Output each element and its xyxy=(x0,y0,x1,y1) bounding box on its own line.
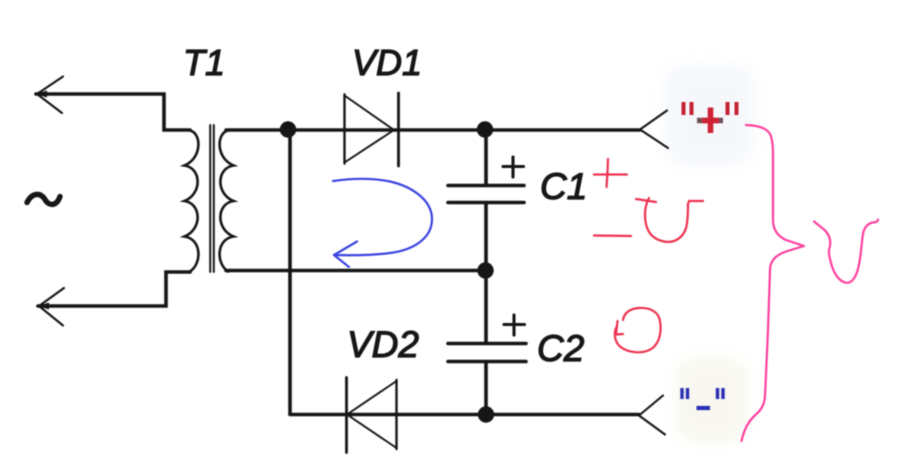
wire: bottom rail xyxy=(290,413,639,417)
input terminal arrow (top) xyxy=(37,77,63,114)
wire: top input lead xyxy=(36,94,190,130)
annotation: red minus polarity mark near C1 xyxy=(594,234,631,237)
svg-text:C1: C1 xyxy=(540,166,587,207)
svg-text:C2: C2 xyxy=(537,328,585,369)
haze behind "-" output annotation xyxy=(676,358,748,442)
annotation: red plus polarity mark near C1 xyxy=(594,159,627,187)
AC source symbol ~ xyxy=(27,194,60,204)
annotation: blue "-" output marker xyxy=(682,388,723,408)
wire: bottom input lead xyxy=(38,272,190,306)
junction node: VD1 cathode / C1 plus / + output xyxy=(477,121,493,137)
annotation: red U-shaped doodle near C1 xyxy=(636,198,703,242)
annotation: red "+" output marker xyxy=(684,102,737,115)
capacitor C1 xyxy=(448,186,524,203)
annotation: red circle doodle xyxy=(615,308,661,352)
junction node: C1 minus / C2 plus / secondary bottom xyxy=(477,262,493,278)
polarity plus of C2 xyxy=(504,315,525,335)
core line left xyxy=(209,125,211,272)
annotation: pink brace xyxy=(742,125,805,441)
diode VD2 xyxy=(347,378,397,453)
svg-text:VD2: VD2 xyxy=(347,324,419,365)
wire: top rail (secondary top to + terminal) xyxy=(226,128,640,132)
wire: C1 top lead xyxy=(484,130,488,184)
input terminal arrow (bottom) xyxy=(39,288,64,326)
svg-text:VD1: VD1 xyxy=(352,42,422,83)
secondary winding xyxy=(220,131,234,272)
wire: middle rail (secondary bottom to C1/C2 junction) xyxy=(226,269,486,273)
wire: C2 bottom lead xyxy=(484,362,488,414)
haze behind "+" output annotation xyxy=(664,64,754,166)
core line right xyxy=(213,125,215,272)
junction node: top rail / branch to VD2 xyxy=(280,121,296,137)
wire: C2 top lead xyxy=(484,271,488,342)
diode VD1 xyxy=(345,93,399,166)
capacitor C2 xyxy=(448,344,526,362)
wire: vertical branch to bottom rail xyxy=(288,130,292,414)
svg-text:T1: T1 xyxy=(183,42,225,83)
junction node: C2 minus / minus output xyxy=(478,406,494,422)
wire: C1 bottom lead xyxy=(484,203,488,270)
polarity plus of C1 xyxy=(503,157,524,177)
primary winding xyxy=(185,131,199,272)
output terminal "-" xyxy=(639,396,665,435)
output terminal "+" xyxy=(640,111,668,149)
annotation: blue circulating-current arrow xyxy=(333,179,432,267)
transformer T1 xyxy=(185,125,234,272)
annotation: pink doodle right of brace xyxy=(814,220,878,283)
